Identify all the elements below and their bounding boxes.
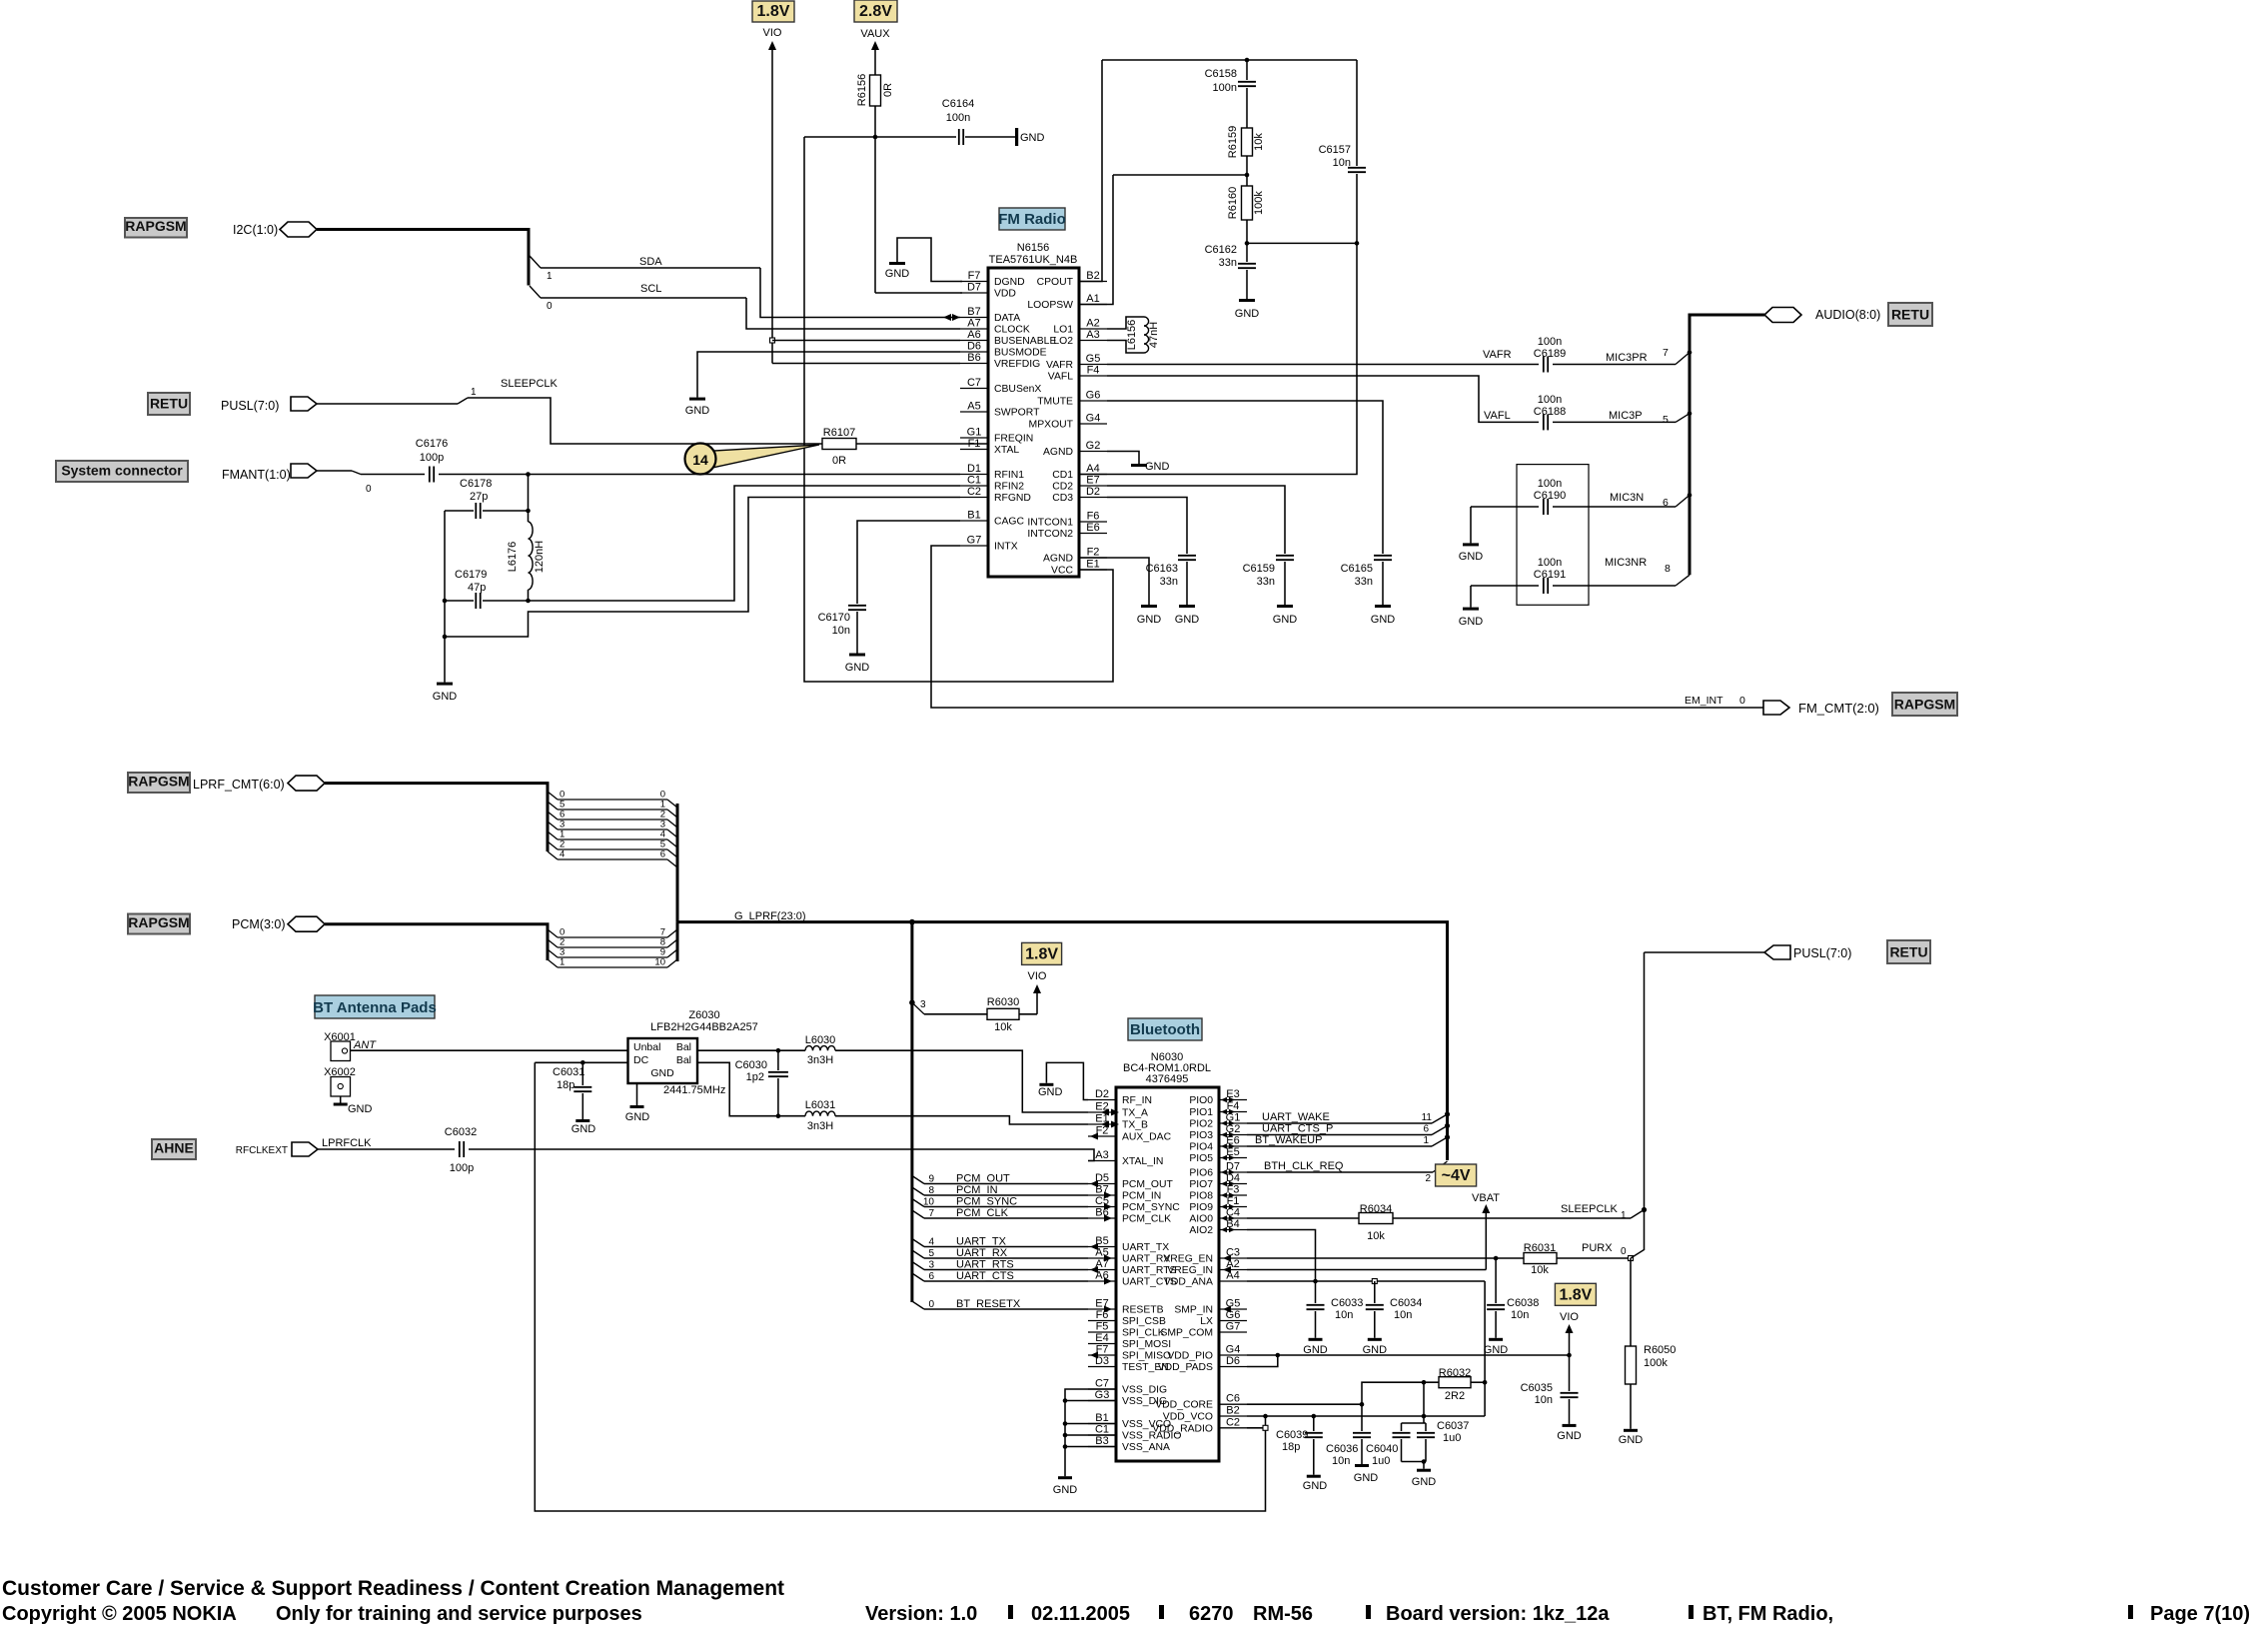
bus wire LPRF_CMT	[325, 784, 548, 851]
ground C6165	[1375, 605, 1391, 608]
arrow UART_RX	[1104, 1255, 1112, 1262]
wire VBAT to VREG_IN	[1485, 1209, 1487, 1270]
pin B1 VSS_VCO (BT left)	[1088, 1423, 1116, 1425]
svg-text:F5: F5	[1096, 1321, 1109, 1333]
svg-text:02.11.2005: 02.11.2005	[1031, 1603, 1130, 1625]
svg-text:GND: GND	[348, 1103, 373, 1115]
svg-text:RETU: RETU	[150, 396, 188, 412]
pin C6 VDD_CORE (BT right)	[1219, 1403, 1247, 1405]
wire UART_RTS from G_LPRF bit 3	[912, 1262, 924, 1270]
svg-text:0: 0	[547, 301, 553, 312]
wire FMANT0	[317, 470, 352, 472]
pin G4 MPXOUT (FM right)	[1079, 423, 1107, 425]
wire UART_WAKE (bit 11)	[1247, 1122, 1432, 1124]
pin E3 PIO0 (BT right)	[1219, 1099, 1247, 1101]
wire PCM bit 2 to G_LPRF bit 8	[548, 939, 558, 947]
pin D7 VDD (FM left)	[960, 292, 988, 294]
svg-text:MIC3P: MIC3P	[1609, 410, 1643, 422]
svg-text:1: 1	[560, 957, 565, 968]
pin B2 VDD_VCO (BT right)	[1219, 1415, 1247, 1417]
svg-text:G7: G7	[967, 535, 982, 547]
wire SLEEPCLK (FM)	[317, 403, 458, 405]
svg-text:C1: C1	[967, 475, 981, 487]
connector System connector (FMANT)	[56, 461, 188, 482]
svg-text:L6030: L6030	[805, 1034, 836, 1046]
svg-text:0R: 0R	[882, 83, 894, 97]
arrow UART_CTS	[1104, 1278, 1112, 1285]
svg-text:CBUSenX: CBUSenX	[994, 384, 1041, 395]
pin G5 SMP_IN (BT right)	[1219, 1308, 1247, 1310]
capacitor C6034 10n	[1374, 1281, 1376, 1303]
wire VAUX rail	[874, 46, 876, 75]
svg-text:XTAL_IN: XTAL_IN	[1122, 1156, 1163, 1167]
pin A7 UART_RTS (BT left)	[1088, 1269, 1116, 1271]
capacitor C6035 10n	[1569, 1355, 1571, 1391]
svg-text:Version: 1.0: Version: 1.0	[865, 1603, 977, 1625]
pin F7 SPI_MISO (BT left)	[1088, 1354, 1116, 1356]
svg-text:BT_WAKEUP: BT_WAKEUP	[1255, 1134, 1322, 1146]
svg-text:PIO9: PIO9	[1189, 1202, 1213, 1213]
wire PCM bit 1 to G_LPRF bit 10	[548, 959, 558, 967]
svg-text:SPI_CLK: SPI_CLK	[1122, 1328, 1165, 1339]
svg-text:VREFDIG: VREFDIG	[994, 359, 1040, 370]
wire DC pin with C6031	[535, 1061, 627, 1063]
svg-text:0: 0	[1621, 1246, 1627, 1257]
svg-text:9: 9	[928, 1174, 934, 1185]
svg-text:Copyright © 2005 NOKIA: Copyright © 2005 NOKIA	[2, 1603, 237, 1625]
svg-text:RESETB: RESETB	[1122, 1305, 1164, 1316]
svg-text:10n: 10n	[832, 625, 850, 637]
svg-text:DATA: DATA	[994, 313, 1020, 324]
pin E6 INTCON2 (FM right)	[1079, 533, 1107, 535]
svg-text:D2: D2	[1086, 486, 1100, 498]
pin D5 PCM_OUT (BT left)	[1088, 1183, 1116, 1185]
svg-text:TX_B: TX_B	[1122, 1120, 1148, 1131]
svg-text:PCM(3:0): PCM(3:0)	[232, 917, 285, 931]
svg-text:C6189: C6189	[1534, 348, 1566, 360]
svg-text:C6034: C6034	[1390, 1297, 1422, 1309]
wire R6030 to VIO	[1019, 1013, 1037, 1015]
svg-text:FM Radio: FM Radio	[998, 211, 1066, 228]
wire TMUTE to C6165	[1107, 401, 1383, 554]
svg-text:PUSL(7:0): PUSL(7:0)	[1793, 946, 1851, 960]
svg-text:Bal: Bal	[676, 1054, 691, 1066]
svg-text:33n: 33n	[1160, 576, 1178, 588]
capacitor C6164 100n	[958, 129, 960, 145]
svg-text:Page 7(10): Page 7(10)	[2150, 1603, 2250, 1625]
pin C5 PCM_SYNC (BT left)	[1088, 1206, 1116, 1208]
pin B6 VREFDIG (FM left)	[960, 363, 988, 365]
wire PCM_SYNC from G_LPRF bit 10	[912, 1199, 924, 1207]
pin G5 VAFR (FM right)	[1079, 364, 1107, 366]
svg-text:33n: 33n	[1355, 576, 1373, 588]
svg-text:RETU: RETU	[1891, 307, 1929, 323]
svg-text:PURX: PURX	[1582, 1242, 1613, 1254]
pin C1 VSS_RADIO (BT left)	[1088, 1434, 1116, 1436]
svg-text:GND: GND	[650, 1067, 674, 1079]
svg-text:GND: GND	[1459, 551, 1484, 563]
wire VREG_EN / PURX	[1247, 1257, 1524, 1259]
bus wire G_LPRF left drop	[910, 922, 913, 1302]
svg-text:6: 6	[660, 849, 665, 860]
svg-text:120nH: 120nH	[534, 541, 546, 573]
wire LPRF_CMT bit 4 to G_LPRF bit 6	[548, 851, 558, 859]
capacitor C6158 100n	[1246, 60, 1248, 80]
svg-text:C6040: C6040	[1366, 1443, 1398, 1455]
wire R6050 to ground	[1630, 1384, 1632, 1429]
svg-text:C6032: C6032	[445, 1126, 477, 1138]
pin G3 VSS_DIG (BT left)	[1088, 1400, 1116, 1402]
svg-text:E7: E7	[1086, 475, 1099, 487]
ground for C6164	[965, 136, 1015, 138]
arrow PCM_SYNC	[1104, 1203, 1112, 1210]
wire C6032 to XTAL_IN	[469, 1149, 1094, 1161]
bus merge LPRF to G_LPRF	[676, 804, 679, 922]
wire R6031 to PURX node	[1557, 1257, 1631, 1259]
capacitor C6159 33n	[1276, 555, 1294, 557]
svg-text:AIO0: AIO0	[1189, 1214, 1213, 1225]
wire BTH_CLK_REQ (bit 2)	[1247, 1171, 1433, 1173]
svg-text:GND: GND	[1273, 614, 1298, 626]
section label FM Radio	[999, 208, 1065, 230]
svg-text:TX_A: TX_A	[1122, 1108, 1148, 1119]
capacitor C6032 100p	[459, 1141, 461, 1157]
svg-text:VBAT: VBAT	[1472, 1192, 1500, 1204]
wire ANT to balun	[351, 1049, 628, 1051]
svg-text:100n: 100n	[1538, 394, 1562, 406]
svg-text:PIO4: PIO4	[1189, 1142, 1213, 1153]
wire LPRF_CMT bit 2 to G_LPRF bit 5	[548, 841, 558, 849]
svg-text:CD3: CD3	[1052, 493, 1073, 504]
svg-text:1: 1	[547, 271, 553, 282]
wire CD2 to C6159	[1107, 486, 1285, 554]
capacitor C6189 100n	[1543, 357, 1545, 373]
svg-text:UART_RTS: UART_RTS	[956, 1259, 1014, 1271]
svg-text:BUSENABLE: BUSENABLE	[994, 336, 1056, 347]
svg-text:18p: 18p	[1282, 1441, 1300, 1453]
svg-text:G2: G2	[1226, 1123, 1241, 1135]
wire VIO to VDD_PIO	[1569, 1329, 1571, 1355]
pin G6 TMUTE (FM right)	[1079, 400, 1107, 402]
wire RFIN2 from L6176 node	[529, 486, 961, 601]
svg-text:VREG_EN: VREG_EN	[1163, 1254, 1213, 1265]
svg-text:~4V: ~4V	[1442, 1167, 1471, 1184]
svg-text:AUDIO(8:0): AUDIO(8:0)	[1815, 308, 1880, 322]
capacitor C6036 10n	[1361, 1404, 1363, 1431]
capacitor C6165 33n	[1374, 555, 1392, 557]
svg-text:C6038: C6038	[1507, 1297, 1539, 1309]
wire antenna filter to ground	[444, 637, 446, 683]
connector symbol I2C(1:0)	[280, 222, 317, 237]
bidirectional arrows on DATA pin	[943, 314, 951, 321]
wire SCL	[530, 286, 541, 298]
svg-text:Only for training and service: Only for training and service purposes	[276, 1603, 642, 1625]
svg-text:C7: C7	[1095, 1378, 1109, 1390]
svg-text:PCM_IN: PCM_IN	[956, 1184, 998, 1196]
svg-text:R6050: R6050	[1644, 1344, 1676, 1356]
wire AGND F2 to ground	[1079, 558, 1149, 605]
svg-text:RETU: RETU	[1889, 944, 1927, 960]
svg-text:47p: 47p	[468, 582, 486, 594]
svg-text:RAPGSM: RAPGSM	[125, 218, 186, 234]
capacitor C6188 100n	[1543, 414, 1545, 430]
svg-text:B2: B2	[1086, 270, 1099, 282]
arrow PCM_OUT	[1090, 1180, 1098, 1187]
section label Bluetooth	[1128, 1018, 1202, 1040]
svg-text:RFIN2: RFIN2	[994, 482, 1024, 493]
wire PCM_IN from G_LPRF bit 8	[912, 1187, 924, 1195]
ground C6035	[1563, 1424, 1577, 1427]
svg-text:GND: GND	[685, 405, 710, 417]
svg-text:6270: 6270	[1189, 1603, 1234, 1625]
svg-text:B6: B6	[967, 352, 980, 364]
svg-text:C1: C1	[1095, 1424, 1109, 1436]
arrow RESETB	[1104, 1306, 1112, 1313]
svg-text:AGND: AGND	[1043, 447, 1073, 458]
pin C7 VSS_DIG (BT left)	[1088, 1388, 1116, 1390]
connector RAPGSM (LPRF_CMT)	[128, 773, 190, 793]
svg-text:D1: D1	[967, 463, 981, 475]
svg-text:G1: G1	[967, 427, 982, 439]
wire CD3 to C6163	[1107, 498, 1187, 555]
svg-text:VAFL: VAFL	[1048, 372, 1073, 383]
svg-text:PIO0: PIO0	[1189, 1095, 1213, 1106]
svg-text:BT Antenna Pads: BT Antenna Pads	[313, 999, 437, 1016]
svg-text:D6: D6	[1226, 1355, 1240, 1367]
svg-text:VIO: VIO	[1028, 970, 1047, 982]
wire VAFR	[1107, 364, 1539, 366]
svg-text:G5: G5	[1086, 353, 1101, 365]
svg-text:Bal: Bal	[676, 1041, 691, 1053]
wire VDD_PADS jog	[1247, 1355, 1278, 1367]
pin D4 PIO7 (BT right)	[1219, 1183, 1247, 1185]
svg-text:G7: G7	[1226, 1321, 1241, 1333]
pin E4 SPI_MOSI (BT left)	[1088, 1343, 1116, 1345]
svg-text:2.8V: 2.8V	[859, 3, 892, 20]
arrow UART_RTS	[1090, 1266, 1098, 1273]
wire L6030 to TX_A	[835, 1050, 1088, 1112]
resistor R6032 2R2	[1439, 1377, 1471, 1388]
svg-text:PIO8: PIO8	[1189, 1191, 1213, 1202]
svg-text:VIO: VIO	[1560, 1311, 1579, 1323]
svg-text:3n3H: 3n3H	[807, 1120, 833, 1132]
svg-text:0: 0	[1739, 695, 1745, 707]
wire R6107 to FREQIN	[856, 443, 989, 445]
svg-text:D7: D7	[967, 282, 981, 294]
svg-text:Z6030: Z6030	[688, 1009, 719, 1021]
svg-text:F4: F4	[1227, 1100, 1240, 1112]
svg-text:A1: A1	[1086, 293, 1099, 305]
svg-text:Board version: 1kz_12a: Board version: 1kz_12a	[1386, 1603, 1610, 1625]
svg-text:PCM_SYNC: PCM_SYNC	[956, 1196, 1017, 1208]
arrow SPI_MISO	[1090, 1352, 1098, 1359]
svg-text:10n: 10n	[1394, 1309, 1412, 1321]
supply 1.8V VIO (BT R6030)	[1022, 942, 1062, 964]
connector symbol LPRF_CMT(6:0)	[288, 776, 325, 791]
pin C3 VREG_EN (BT right)	[1219, 1257, 1247, 1259]
connector RAPGSM (PCM)	[128, 914, 190, 934]
svg-text:BT, FM Radio,: BT, FM Radio,	[1702, 1603, 1833, 1625]
wire BT_RESETX from G_LPRF bit 0	[912, 1301, 924, 1309]
svg-text:F2: F2	[1087, 547, 1100, 559]
pin E5 PIO5 (BT right)	[1219, 1157, 1247, 1159]
svg-text:2441.75MHz: 2441.75MHz	[663, 1084, 725, 1096]
svg-text:14: 14	[692, 452, 708, 468]
capacitor C6179 47p	[445, 600, 474, 602]
svg-text:AHNE: AHNE	[154, 1140, 194, 1156]
svg-text:4: 4	[560, 849, 565, 860]
svg-text:2R2: 2R2	[1445, 1390, 1465, 1402]
pin C2 RFGND (FM left)	[960, 497, 988, 499]
ground C6039	[1307, 1475, 1321, 1478]
svg-text:0: 0	[928, 1299, 934, 1310]
wire CAGC to C6170	[857, 521, 960, 604]
svg-text:VDD_ANA: VDD_ANA	[1164, 1277, 1213, 1288]
svg-text:XTAL: XTAL	[994, 445, 1019, 456]
pin G1 PIO2 (BT right)	[1219, 1122, 1247, 1124]
svg-text:11: 11	[1422, 1112, 1433, 1123]
svg-text:B1: B1	[1095, 1412, 1108, 1424]
svg-text:R6034: R6034	[1360, 1203, 1392, 1215]
svg-text:C6031: C6031	[553, 1066, 584, 1078]
wire VDD_CORE to R6032	[1247, 1403, 1362, 1405]
svg-text:C6170: C6170	[818, 612, 850, 624]
svg-text:VSS_ANA: VSS_ANA	[1122, 1442, 1170, 1453]
wire DGND to ground	[897, 238, 962, 282]
wire antenna filter left leg	[444, 511, 446, 637]
svg-text:G4: G4	[1086, 413, 1101, 425]
wire PCM bit 0 to G_LPRF bit 7	[548, 929, 558, 937]
svg-text:PCM_OUT: PCM_OUT	[1122, 1179, 1173, 1190]
pin B7 PCM_IN (BT left)	[1088, 1194, 1116, 1196]
svg-text:C2: C2	[1226, 1416, 1240, 1428]
svg-text:D6: D6	[967, 341, 981, 353]
arrows TX_A TX_B	[1101, 1109, 1109, 1116]
wire AIO2 jog to VDD_ANA row	[1247, 1230, 1316, 1282]
resistor R6107 0R	[822, 439, 856, 450]
svg-text:B4: B4	[1226, 1218, 1239, 1230]
pin D1 RFIN1 (FM left)	[960, 474, 988, 476]
svg-text:L6031: L6031	[805, 1099, 836, 1111]
capacitor C6033 10n	[1315, 1281, 1317, 1303]
arrow SMP_IN	[1223, 1306, 1231, 1313]
svg-text:7: 7	[1663, 347, 1669, 359]
svg-text:R6159: R6159	[1227, 126, 1239, 158]
svg-text:RAPGSM: RAPGSM	[1894, 697, 1955, 713]
svg-text:0: 0	[366, 484, 372, 495]
wire Bal top with junction	[697, 1049, 805, 1051]
svg-text:PIO5: PIO5	[1189, 1153, 1213, 1164]
pin F2 AUX_DAC (BT left)	[1088, 1135, 1116, 1137]
wire LPRF_CMT bit 6 to G_LPRF bit 2	[548, 812, 558, 819]
svg-text:100p: 100p	[450, 1162, 474, 1174]
svg-text:INTX: INTX	[994, 542, 1018, 553]
svg-text:MIC3NR: MIC3NR	[1605, 557, 1647, 569]
svg-text:FREQIN: FREQIN	[994, 434, 1033, 445]
svg-text:E4: E4	[1095, 1332, 1108, 1344]
svg-text:6: 6	[928, 1271, 934, 1282]
svg-text:D4: D4	[1226, 1172, 1240, 1184]
svg-text:CD2: CD2	[1052, 482, 1073, 493]
wire MIC3P	[1553, 421, 1676, 423]
pin A2 VREG_IN (BT right)	[1219, 1269, 1247, 1271]
svg-text:C6033: C6033	[1331, 1297, 1363, 1309]
svg-text:D7: D7	[1226, 1161, 1240, 1173]
pin G2 PIO3 (BT right)	[1219, 1134, 1247, 1136]
svg-text:C6162: C6162	[1205, 244, 1237, 256]
pin A1 LOOPSW (FM right)	[1079, 304, 1107, 306]
svg-text:3: 3	[928, 1260, 934, 1271]
svg-text:INTCON1: INTCON1	[1027, 518, 1073, 529]
wire VCC loop from VAUX node	[804, 137, 1113, 682]
svg-text:7: 7	[928, 1208, 934, 1219]
wire LPRF_CMT bit 1 to G_LPRF bit 4	[548, 831, 558, 839]
pin F4 VAFL (FM right)	[1079, 375, 1107, 377]
capacitor C6037 1u0	[1425, 1423, 1427, 1431]
svg-text:27p: 27p	[470, 491, 488, 503]
svg-text:GND: GND	[1354, 1472, 1379, 1484]
pin A7 CLOCK (FM left)	[960, 328, 988, 330]
capacitor C6163 33n	[1178, 555, 1196, 557]
wire BUSENABLE to VIO	[772, 340, 960, 342]
svg-text:10n: 10n	[1332, 1455, 1350, 1467]
wire MIC3NR left to ground	[1470, 586, 1472, 608]
ground C6034	[1368, 1338, 1382, 1341]
wire PUSL vertical	[1644, 952, 1646, 1250]
svg-text:Unbal: Unbal	[633, 1041, 660, 1053]
svg-text:5: 5	[1663, 414, 1669, 426]
box around C6190/C6191	[1517, 465, 1589, 606]
inductor L6156 47nH	[1107, 317, 1144, 329]
svg-text:4376495: 4376495	[1146, 1073, 1189, 1085]
bus wire PCM	[325, 924, 548, 960]
wire MIC3NR	[1553, 585, 1676, 587]
svg-text:GND: GND	[1371, 614, 1396, 626]
svg-text:VREG_IN: VREG_IN	[1167, 1265, 1213, 1276]
pin A6 UART_CTS (BT left)	[1088, 1280, 1116, 1282]
svg-text:C6158: C6158	[1205, 68, 1237, 80]
wire node C6162/C6157 bottom row	[1246, 220, 1248, 262]
arrow VREG_EN	[1223, 1255, 1231, 1262]
ground C6036	[1355, 1464, 1369, 1467]
svg-text:F7: F7	[968, 270, 981, 282]
svg-text:RFGND: RFGND	[994, 493, 1031, 504]
pin D2 RF_IN (BT left)	[1088, 1099, 1116, 1101]
svg-text:C6190: C6190	[1534, 490, 1566, 502]
svg-text:C6164: C6164	[942, 98, 974, 110]
svg-text:RAPGSM: RAPGSM	[128, 914, 189, 930]
capacitor C6039 18p	[1313, 1416, 1315, 1431]
svg-text:VCC: VCC	[1051, 566, 1073, 577]
svg-text:C7: C7	[967, 377, 981, 389]
wire MIC3N	[1553, 506, 1676, 508]
svg-text:10k: 10k	[1367, 1230, 1385, 1242]
svg-text:R6031: R6031	[1524, 1242, 1556, 1254]
ground for DGND pin	[889, 262, 905, 265]
wire VAFL	[1107, 376, 1539, 422]
svg-text:1u0: 1u0	[1443, 1432, 1461, 1444]
svg-text:100n: 100n	[1538, 557, 1562, 569]
svg-text:G4: G4	[1226, 1344, 1241, 1356]
pin F1 PIO9 (BT right)	[1219, 1206, 1247, 1208]
wire UART_CTS from G_LPRF bit 6	[912, 1273, 924, 1281]
svg-text:LFB2H2G44BB2A257: LFB2H2G44BB2A257	[650, 1021, 758, 1033]
connector symbol PCM(3:0)	[288, 916, 325, 931]
svg-text:C6178: C6178	[460, 478, 492, 490]
svg-text:A7: A7	[967, 318, 980, 330]
svg-text:PCM_CLK: PCM_CLK	[1122, 1214, 1171, 1225]
pin C7 CBUSenX (FM left)	[960, 388, 988, 390]
